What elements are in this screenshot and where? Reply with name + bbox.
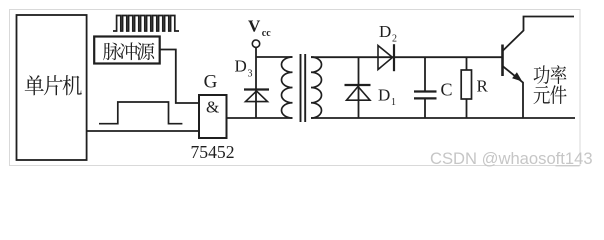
figure border frame (decorative) <box>10 10 581 166</box>
wire: MCU output to gate lower input <box>87 130 199 132</box>
svg-text:1: 1 <box>391 97 396 108</box>
wire: secondary top to D2 anode and on to transistor base <box>311 56 503 58</box>
svg-text:D: D <box>378 86 390 105</box>
diode D1 (clamp across secondary) <box>345 57 371 118</box>
svg-text:D: D <box>235 57 247 76</box>
svg-text:cc: cc <box>262 28 271 39</box>
svg-text:D: D <box>379 22 391 41</box>
wire: secondary bottom rail <box>311 117 575 119</box>
transformer T1 secondary winding <box>311 57 322 118</box>
wire: gate output to transformer primary bottom <box>227 117 293 119</box>
power terminal Vcc <box>248 17 271 48</box>
load label 功率元件 (power element) <box>533 65 566 104</box>
svg-text:R: R <box>477 77 489 96</box>
svg-text:C: C <box>441 80 453 100</box>
resistor R <box>461 57 471 118</box>
svg-text:2: 2 <box>392 34 397 45</box>
wire: Vcc to transformer primary top <box>256 56 293 58</box>
capacitor C <box>414 57 437 118</box>
diode D3 (flyback across primary) <box>244 90 269 102</box>
microcontroller block 单片机 U-MCU <box>17 15 87 160</box>
svg-text:75452: 75452 <box>191 142 235 162</box>
diode D2 (series rectifier) <box>378 44 394 71</box>
transistor Q1 (NPN power switch) <box>503 17 575 119</box>
svg-text:&: & <box>206 98 219 117</box>
transformer T1 core <box>301 54 306 122</box>
wire: pulse source output to gate upper input <box>160 50 199 104</box>
wire: Vcc vertical rail through D3 <box>255 47 257 118</box>
pulse source block 脉冲源 <box>94 37 160 64</box>
svg-text:3: 3 <box>248 69 253 80</box>
single pulse waveform symbol <box>99 102 182 124</box>
svg-text:G: G <box>204 71 218 92</box>
pulse train waveform symbol <box>113 16 179 32</box>
AND gate U1 75452 <box>199 95 227 138</box>
svg-text:V: V <box>248 17 261 36</box>
svg-text:CSDN @whaosoft143: CSDN @whaosoft143 <box>430 149 593 168</box>
transformer T1 primary winding <box>281 57 292 118</box>
